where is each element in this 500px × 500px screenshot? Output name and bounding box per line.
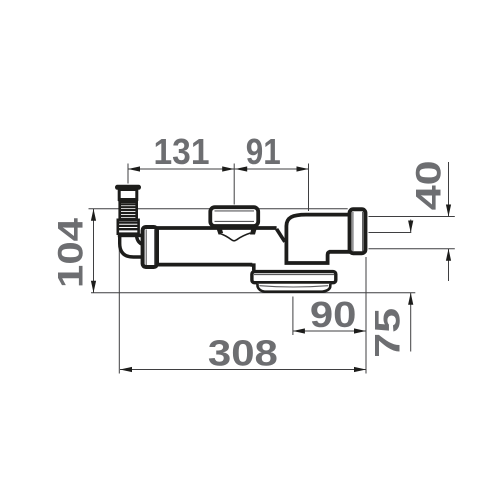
- corrugation bottom band: [118, 234, 143, 238]
- svg-text:104: 104: [52, 217, 91, 288]
- thin reference tangent line bottom (y=292.7): [91, 292, 415, 294]
- dimension 308/90 extension line right (x=366): [365, 257, 367, 374]
- arrow 104 bottom: [91, 281, 96, 293]
- svg-text:308: 308: [208, 333, 278, 374]
- arrow 91 left: [235, 166, 247, 171]
- body interior white: [157, 230, 328, 263]
- nut 1 inner lines: [145, 230, 147, 266]
- arrow 131 left: [128, 166, 140, 171]
- dimension line 91: [234, 168, 308, 170]
- arrow 308 left: [120, 367, 132, 372]
- svg-text:131: 131: [154, 131, 210, 172]
- dimension 104 line: [93, 209, 95, 293]
- dimension line 40 lower stub: [448, 249, 450, 281]
- socket chamfer over elbow: [277, 229, 285, 242]
- cone under cap: [219, 233, 251, 241]
- dimension line 308: [120, 369, 366, 371]
- cap left foot: [216, 226, 224, 235]
- arrow 131 right: [222, 166, 234, 171]
- dimension 131 extension line left (x=128): [127, 164, 129, 184]
- body bottom line: [157, 263, 252, 267]
- dimension line 40 upper stub: [448, 162, 450, 216]
- cap right foot: [250, 226, 258, 235]
- dimension line 131: [128, 168, 234, 170]
- dimension line 75 upper stub: [410, 220, 412, 233]
- bell flange left step: [251, 265, 254, 271]
- bell flange inner line: [254, 274, 334, 276]
- inlet neck step: [118, 200, 137, 203]
- svg-text:91: 91: [246, 131, 281, 172]
- arrow 90 right: [354, 328, 366, 333]
- outlet elbow (right): [286, 215, 352, 263]
- dimension 90 extension line (x=292.9): [292, 297, 294, 336]
- cap inner top line: [215, 210, 255, 212]
- bell dome inner line: [259, 286, 328, 287]
- corrugation ribs lower: [118, 221, 139, 223]
- dimension line 90: [293, 330, 366, 332]
- arrow 104 top: [91, 209, 96, 221]
- svg-text:90: 90: [310, 294, 357, 335]
- corrugation ribs upper: [120, 203, 137, 205]
- inlet elbow (bottom-left): [120, 234, 144, 257]
- inlet flange bar: [115, 185, 141, 190]
- cap skirt line: [215, 220, 255, 222]
- cleanout cap: [210, 207, 258, 226]
- dimension 308 extension line left (x=120): [118, 248, 120, 374]
- nut 2 (outlet right): [350, 209, 366, 253]
- dimension 75 extension line axis (y=232.5): [369, 232, 412, 234]
- corrugated tube upper section: [120, 202, 137, 220]
- body top line: [157, 226, 277, 230]
- inlet neck: [119, 190, 137, 200]
- dimension extension line center (x=234.2): [233, 164, 235, 205]
- arrow 90 left: [293, 328, 305, 333]
- dimension 40 extension line top (y=216.5): [369, 216, 455, 218]
- arrow 91 right: [297, 166, 309, 171]
- svg-text:75: 75: [369, 308, 408, 358]
- dimension 40 extension line bottom (y=248.7): [369, 248, 455, 250]
- corrugated tube lower section: [118, 220, 139, 234]
- dimension 91 extension line right (x=308.5): [308, 164, 310, 212]
- arrow 75 bottom: [408, 293, 413, 305]
- arrow 40 bottom: [446, 249, 451, 261]
- thin reference tangent line top (y=208.7): [89, 208, 348, 210]
- arrow 75 top: [408, 221, 413, 233]
- bell dome: [257, 284, 330, 292]
- dimension line 75 lower stub: [410, 293, 412, 352]
- nut 1 (inlet): [143, 227, 157, 267]
- bell flange: [252, 272, 336, 283]
- svg-text:40: 40: [409, 160, 448, 210]
- nut 2 inner lines: [352, 212, 354, 251]
- arrow 308 right: [354, 367, 366, 372]
- arrow 40 top: [446, 205, 451, 217]
